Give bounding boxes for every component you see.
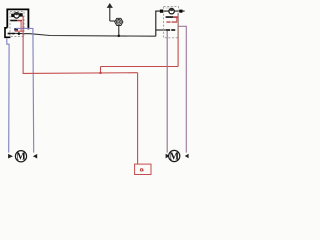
motor icon in switch (169, 9, 174, 14)
terminal dot left (160, 10, 163, 13)
wire: main black bus from master switch to right riser (8, 33, 156, 36)
arrow into right motor (left) (166, 154, 171, 159)
wire: red drop to label box (137, 73, 139, 164)
wire: drop from breaker to main bus (118, 26, 120, 36)
junction on bus (118, 35, 121, 38)
wire: red step up (100, 67, 102, 74)
red link horizontal (15, 30, 24, 32)
contact bar black (166, 16, 174, 18)
wire: mauve to right motor (left side) (166, 31, 168, 153)
terminal dot right (179, 10, 182, 13)
dashed switch box (10, 11, 24, 36)
wire: purple to left motor (up side) (7, 38, 9, 153)
label box (red) (135, 164, 151, 174)
motor M1 (left window motor) (15, 151, 26, 162)
wire: blue to left motor (down side) (16, 28, 34, 152)
tiny glyph in label box (140, 169, 142, 171)
svg-text:M: M (16, 152, 26, 163)
wire: red upper horizontal (101, 66, 179, 68)
tiny label (166, 7, 174, 10)
circuit breaker CB (nut symbol) (115, 18, 123, 25)
wire: red riser to passenger switch (177, 13, 179, 67)
wire: black stub into passenger switch lower contact (156, 29, 166, 31)
contact bar red (173, 16, 177, 18)
svg-text:M: M (169, 151, 179, 162)
red dashes row (166, 21, 170, 22)
tiny label (12, 12, 21, 13)
contact bars row2 (8, 33, 11, 35)
arrow into right motor (right) (185, 154, 189, 159)
junction red (99, 72, 101, 74)
motor icon in switch (14, 13, 19, 18)
red link vertical 1 (20, 21, 22, 31)
wire: maroon to right motor (right side) (178, 26, 186, 152)
contact bar red (17, 20, 22, 22)
red link vertical (176, 18, 178, 22)
wire: red from master switch down (22, 16, 24, 74)
terminal dot right (19, 13, 22, 16)
master switch case outline (7, 9, 28, 29)
terminal dot left (11, 14, 14, 17)
arrow into left motor (right) (33, 154, 37, 159)
wire: black top feed of passenger switch (155, 10, 184, 12)
power feed arrow (battery source) (107, 3, 115, 21)
terminal blob blue (14, 28, 18, 30)
wire: black riser to passenger switch (155, 11, 157, 36)
arrow into left motor (left) (8, 154, 13, 159)
motor M2 (right window motor) (169, 150, 180, 161)
dashed switch box (164, 7, 179, 38)
contact bar black (10, 20, 17, 22)
wire: red lower horizontal (23, 72, 138, 75)
lower contact bars (166, 29, 170, 31)
